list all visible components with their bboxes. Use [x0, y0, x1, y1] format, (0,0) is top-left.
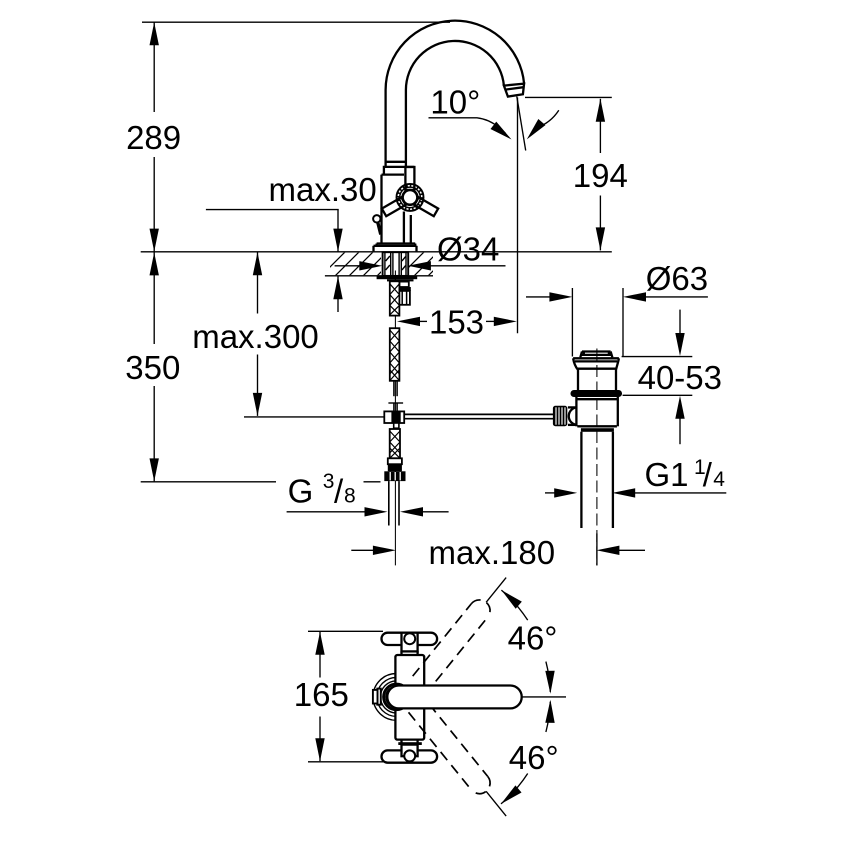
handle center block top	[402, 633, 418, 652]
svg-text:max.30: max.30	[269, 171, 377, 208]
deck top surface line	[141, 251, 612, 253]
spout gooseneck inner contour	[406, 41, 504, 167]
handle hub	[403, 190, 418, 205]
spout outlet aerator cap	[504, 84, 524, 97]
stem lines top	[400, 651, 402, 655]
svg-text:G: G	[288, 473, 314, 510]
svg-text:Ø63: Ø63	[646, 260, 708, 297]
10 deg tilted stream line	[517, 97, 526, 151]
spout (plan)	[387, 686, 521, 709]
handle right spoke	[414, 197, 438, 216]
svg-text:350: 350	[125, 349, 180, 386]
dimension 165	[319, 632, 321, 678]
drain centerline	[596, 349, 598, 566]
rubber seal ring	[571, 390, 623, 397]
dimension G 3/8 arrows	[287, 511, 366, 513]
dimension 40-53	[622, 356, 693, 358]
deck bottom line	[325, 275, 433, 277]
handle bar bottom (plan)	[382, 750, 438, 762]
left bracket	[377, 689, 381, 705]
horizontal rod to drain	[404, 413, 553, 415]
flexible hose lower segment	[390, 328, 400, 381]
waste body bottom	[577, 425, 617, 427]
lift rod lower	[393, 381, 395, 396]
swivel range lower dashed arm	[409, 699, 495, 798]
dimension 194	[525, 96, 612, 98]
supply pipe tails	[388, 481, 390, 525]
mounting nut	[387, 279, 414, 281]
swivel range upper dashed arm	[409, 596, 495, 695]
svg-text:40-53: 40-53	[638, 359, 722, 396]
svg-text:Ø34: Ø34	[437, 231, 499, 268]
svg-text:G1: G1	[645, 456, 689, 493]
handle center block bottom	[402, 745, 418, 757]
horizontal lever rod left	[244, 416, 384, 418]
cartridge rings	[384, 684, 410, 710]
lift rod tee	[388, 402, 403, 404]
bottom reference line at hose end	[141, 481, 276, 483]
deck hatching left of shank	[320, 251, 402, 277]
dimension max.180	[351, 549, 375, 551]
svg-text:max.300: max.300	[192, 318, 319, 355]
spout gooseneck outer contour	[386, 21, 524, 167]
escutcheon circles	[373, 674, 420, 721]
svg-text:289: 289	[126, 119, 181, 156]
dimension 165 reference lines	[308, 630, 383, 632]
body (plan)	[395, 655, 424, 740]
dimension G1 1/4 arrows	[545, 492, 556, 494]
svg-text:165: 165	[294, 676, 349, 713]
spout centerline	[522, 696, 566, 698]
handle bar top (plan)	[382, 633, 438, 645]
svg-text:/: /	[703, 456, 713, 493]
svg-text:153: 153	[429, 303, 484, 340]
body collar	[384, 167, 414, 175]
base plate	[374, 245, 417, 247]
rod coupling block	[384, 411, 404, 423]
hose end connector	[388, 458, 402, 464]
upper arm extension line	[486, 578, 506, 603]
svg-text:max.180: max.180	[429, 534, 556, 571]
stem dark band bottom	[398, 742, 422, 745]
rod side port	[568, 406, 578, 408]
svg-text:8: 8	[344, 485, 356, 508]
mounting shank through deck	[383, 252, 409, 276]
knurled clamp knob	[553, 406, 567, 426]
handle ring inner	[400, 187, 421, 208]
pop-up pull knob	[373, 215, 380, 222]
flexible hose third segment	[390, 429, 400, 458]
svg-text:194: 194	[573, 157, 628, 194]
svg-text:/: /	[334, 473, 344, 510]
handle ring outer	[397, 184, 424, 211]
handle ring knurl	[398, 186, 422, 210]
mounting washer	[377, 276, 418, 279]
dimension max.300	[257, 252, 259, 313]
handle left spoke	[382, 197, 406, 216]
handle screw bottom	[404, 750, 415, 761]
handle top spoke	[405, 167, 414, 190]
centerline of faucet	[394, 271, 396, 566]
dimension 289/350: vertical dimension line at left	[153, 22, 155, 112]
svg-text:10°: 10°	[430, 84, 480, 121]
svg-text:4: 4	[713, 468, 725, 491]
svg-text:46°: 46°	[508, 620, 558, 657]
lower arm extension line	[486, 791, 506, 816]
svg-text:3: 3	[323, 470, 335, 493]
waste body	[575, 397, 577, 426]
dimension 153	[397, 317, 420, 326]
tailpipe	[580, 432, 582, 528]
waste flange flare	[573, 358, 578, 390]
handle screw top	[404, 633, 415, 644]
stem lines bottom	[400, 740, 402, 745]
angle 46 deg lower arc	[501, 774, 528, 804]
G3/8 nut	[384, 471, 405, 481]
spout joint line	[386, 161, 406, 163]
flexible hose upper segment	[390, 281, 400, 315]
tailpipe collar	[581, 428, 614, 432]
pop-up plug cap	[582, 350, 611, 352]
svg-text:46°: 46°	[509, 739, 559, 776]
angle 46 deg upper arc	[501, 590, 527, 620]
waste flange top	[573, 357, 619, 359]
faucet body	[380, 175, 382, 244]
deck hatching right of shank	[399, 251, 453, 277]
extension line from spout outlet	[517, 98, 519, 334]
pop-up rod clevis	[399, 282, 408, 287]
dimension 289: top reference line	[142, 21, 450, 23]
base step	[377, 242, 416, 244]
